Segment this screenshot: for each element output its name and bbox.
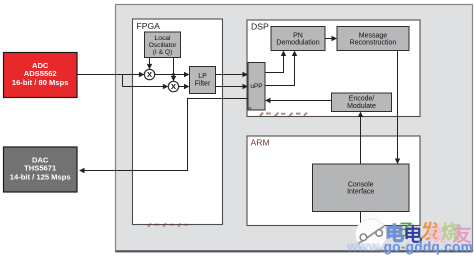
ADC box ADS5562: [4, 53, 78, 98]
local oscillator box: [145, 32, 181, 58]
svg-text:Reconstruction: Reconstruction: [350, 40, 397, 47]
wire X2 to LP filter: [179, 84, 190, 89]
svg-text:uPP: uPP: [250, 83, 262, 90]
wire uPP to PN demodulation (1): [265, 51, 286, 73]
DAC box THS5671: [4, 147, 78, 192]
FPGA block: [133, 19, 223, 225]
svg-text:Message: Message: [359, 32, 388, 39]
ARM block: [247, 136, 420, 226]
svg-text:16-bit / 80 Msps: 16-bit / 80 Msps: [12, 78, 69, 87]
wire console interface bottom stub: [360, 212, 362, 226]
PN demodulation box: [271, 27, 325, 51]
svg-text:DSP: DSP: [251, 22, 269, 32]
DSP block: [247, 20, 420, 117]
svg-text:Modulate: Modulate: [347, 103, 376, 110]
LP filter box: [190, 67, 216, 94]
wire PN demodulation to message reconstruction: [325, 36, 337, 41]
svg-text:PN: PN: [293, 32, 303, 39]
svg-text:14-bit / 125 Msps: 14-bit / 125 Msps: [10, 172, 71, 181]
wire local oscillator Q output to X2: [171, 58, 176, 82]
svg-text:Encode/: Encode/: [349, 96, 375, 103]
wire local oscillator I output to X1: [147, 58, 152, 70]
faint red watermark remnant under uPP: [247, 107, 308, 116]
svg-text:Console: Console: [348, 181, 374, 188]
svg-text:ARM: ARM: [251, 138, 270, 148]
watermark text 电子发烧友: [385, 220, 472, 246]
watermark logo circle: [355, 212, 386, 250]
wire branch down to mixer X2: [123, 75, 169, 90]
wire console interface up to encode/modulate: [358, 112, 363, 165]
svg-text:FPGA: FPGA: [137, 21, 161, 31]
wire ADC to mixer X1: [77, 72, 144, 77]
svg-text:X: X: [171, 82, 176, 91]
mixer X1: [144, 69, 154, 79]
svg-text:LP: LP: [198, 73, 207, 80]
encode/modulate box: [332, 93, 392, 112]
faint red watermark remnant on FPGA bottom edge: [147, 223, 188, 227]
mixer X2: [168, 81, 178, 91]
wire message reconstruction down to console interface: [395, 51, 400, 165]
wire uPP to PN demodulation (2): [265, 51, 297, 86]
svg-text:Interface: Interface: [347, 189, 374, 196]
console interface box: [313, 164, 410, 212]
svg-text:www.go-gddq.com: www.go-gddq.com: [347, 240, 474, 255]
wire X1 to LP filter: [155, 72, 190, 77]
svg-text:ADS5562: ADS5562: [24, 69, 57, 78]
wire LP filter to uPP (Q): [216, 84, 249, 89]
watermark url www.go-gddq.com: [345, 239, 473, 255]
svg-text:Oscillator: Oscillator: [149, 42, 178, 49]
svg-text:THS5671: THS5671: [24, 164, 57, 173]
svg-text:Filter: Filter: [195, 80, 211, 87]
svg-text:X: X: [147, 70, 152, 79]
wire LP filter to uPP (I): [216, 72, 249, 77]
svg-text:Local: Local: [155, 35, 172, 42]
svg-text:(I & Q): (I & Q): [153, 49, 173, 56]
wire uPP through FPGA to DAC: [79, 99, 248, 174]
message reconstruction box: [337, 27, 409, 51]
outer gray panel: [116, 5, 473, 253]
wire encode/modulate to uPP: [265, 98, 332, 103]
junction dot: [172, 73, 175, 76]
svg-text:Demodulation: Demodulation: [276, 40, 319, 47]
uPP box: [248, 63, 265, 111]
